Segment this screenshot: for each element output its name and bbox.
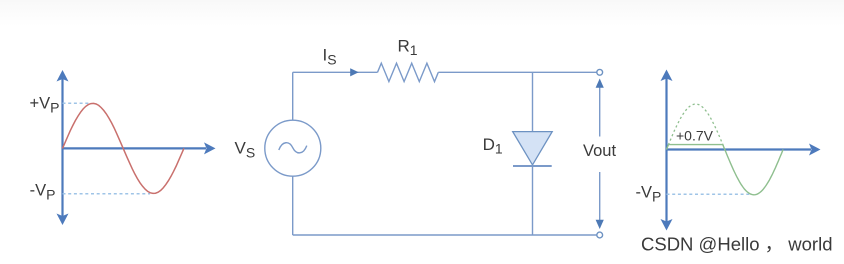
svg-text:+0.7V: +0.7V	[676, 127, 714, 143]
AC source Vs circle	[265, 120, 321, 176]
current arrow Is	[350, 68, 359, 76]
wire: bottom left vertical from source to bottom rail	[292, 176, 294, 235]
svg-text:Vout: Vout	[583, 142, 616, 160]
resistor R1	[378, 63, 439, 81]
dashed -Vp level line (input)	[63, 193, 151, 195]
AC source sine symbol	[279, 143, 307, 153]
Vout measure arrow down	[596, 172, 604, 229]
dashed +Vp level line (input)	[63, 102, 90, 104]
input waveform horizontal axis	[63, 142, 216, 154]
output waveform horizontal axis	[667, 144, 821, 156]
wire: top rail right segment	[438, 71, 596, 73]
wire: top left vertical from source to top rail	[292, 72, 294, 120]
dotted unclipped positive half cycle	[667, 104, 725, 149]
wire: diode branch lower	[532, 166, 534, 235]
clipped output waveform	[667, 145, 784, 195]
output terminal top	[597, 69, 603, 75]
wire: diode branch upper	[532, 72, 534, 131]
dashed -Vp level line (output)	[667, 193, 752, 195]
svg-text:CSDN @Hello ， world: CSDN @Hello ， world	[641, 234, 833, 255]
diode D1 cathode bar	[513, 165, 552, 167]
diode D1 triangle	[513, 132, 553, 165]
output terminal bottom	[597, 232, 603, 238]
input waveform vertical axis	[57, 70, 69, 225]
wire: top rail left segment	[293, 71, 378, 73]
wire: bottom rail	[293, 234, 597, 236]
Vout measure arrow up	[596, 79, 604, 137]
input sine wave	[63, 103, 184, 193]
output waveform vertical axis	[661, 70, 673, 231]
